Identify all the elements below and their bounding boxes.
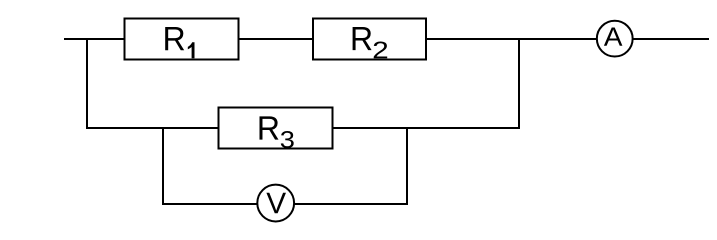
wire: junction J2 to ammeter left pin xyxy=(518,38,598,40)
wire: lower rail, left corner to junction J3 xyxy=(86,127,164,129)
wire: bottom rail, left tap to voltmeter left pin xyxy=(162,203,258,205)
ammeter A xyxy=(597,21,633,57)
wire: R2 right pin to junction J2 xyxy=(426,38,520,40)
voltmeter V xyxy=(257,185,294,222)
wire: R1 right pin to R2 left pin xyxy=(239,38,314,40)
wire: ammeter right pin to right output terminal xyxy=(633,38,709,40)
wire: voltmeter tap, junction J4 down to bottom rail xyxy=(406,127,408,205)
resistor R1 xyxy=(125,19,239,60)
wire: junction J3 to R3 left pin xyxy=(162,127,219,129)
resistor R2 xyxy=(313,19,426,60)
wire: junction J1 to R1 left pin xyxy=(86,38,125,40)
resistor R3 xyxy=(219,108,333,149)
wire: junction J4 to right corner of lower rail xyxy=(406,127,520,129)
wire: vertical from junction J2 down to lower rail right corner xyxy=(518,38,520,129)
wire: voltmeter tap, junction J3 down to bottom rail xyxy=(162,127,164,205)
wire: voltmeter right pin to right tap xyxy=(294,203,408,205)
wire: left input lead to junction J1 xyxy=(64,38,88,40)
wire: R3 right pin to junction J4 xyxy=(333,127,409,129)
wire: vertical branch from junction J1 down to lower rail xyxy=(86,38,88,129)
